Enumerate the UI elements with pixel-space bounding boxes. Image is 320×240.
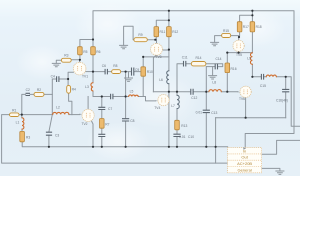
svg-text:R18: R18 bbox=[256, 25, 262, 29]
svg-text:R6: R6 bbox=[96, 50, 100, 54]
svg-text:R8: R8 bbox=[113, 64, 117, 68]
svg-text:L7: L7 bbox=[171, 104, 175, 108]
ground below R3 bbox=[52, 63, 61, 66]
svg-text:R3: R3 bbox=[64, 54, 68, 58]
wire L6 to bus bbox=[168, 84, 170, 147]
svg-text:TV5: TV5 bbox=[236, 53, 242, 57]
svg-text:TV1: TV1 bbox=[82, 74, 88, 78]
tube TV3 bbox=[151, 43, 163, 55]
wire L9 to C15 node bbox=[251, 64, 253, 77]
ground of R9 loop bbox=[119, 45, 128, 48]
capacitor C10 plates bbox=[173, 134, 180, 136]
resistor R3 bbox=[61, 58, 71, 62]
inductor L9 bbox=[250, 53, 252, 64]
tube TV6 bbox=[238, 86, 252, 97]
svg-text:C6: C6 bbox=[102, 64, 106, 68]
wire C6 R8 C9 chain bbox=[93, 71, 141, 73]
inductor L3 bbox=[91, 83, 93, 91]
svg-text:C9: C9 bbox=[135, 68, 139, 72]
resistor R5 bbox=[78, 47, 83, 55]
wire TV1 right link bbox=[86, 71, 93, 73]
wire top supply rail bbox=[93, 11, 294, 148]
svg-text:C11: C11 bbox=[182, 56, 188, 60]
resistor R14 bbox=[191, 62, 206, 66]
wire C4 branch vertical bbox=[52, 72, 73, 94]
wire out row step bbox=[262, 140, 300, 154]
svg-text:TV4: TV4 bbox=[154, 106, 160, 110]
capacitor on anode line plates bbox=[111, 94, 113, 100]
wire L1 R3a chain bbox=[22, 115, 228, 147]
wire R16 leads bbox=[226, 53, 228, 92]
svg-text:C4: C4 bbox=[51, 74, 55, 78]
resistor R10 bbox=[141, 67, 146, 76]
capacitor C3 plates bbox=[46, 132, 52, 135]
tube TV2 bbox=[80, 109, 95, 121]
wire TV6 cathode bbox=[245, 97, 247, 117]
capacitor C4 plates bbox=[57, 76, 59, 82]
capacitor C2 plates bbox=[26, 93, 31, 95]
svg-text:L1: L1 bbox=[16, 120, 20, 124]
resistor R8 bbox=[112, 70, 121, 74]
svg-text:C12: C12 bbox=[191, 96, 197, 100]
resistor R11 bbox=[154, 27, 159, 37]
tube TV4 bbox=[155, 95, 169, 106]
tube TV5 bbox=[233, 40, 244, 51]
svg-text:L5: L5 bbox=[130, 90, 134, 94]
svg-text:L2: L2 bbox=[56, 105, 60, 109]
capacitor C12 plates bbox=[191, 89, 193, 95]
svg-text:R11: R11 bbox=[160, 30, 166, 34]
svg-text:C15: C15 bbox=[260, 84, 266, 88]
svg-text:R3: R3 bbox=[26, 136, 30, 140]
capacitor below R7 plates bbox=[98, 134, 105, 136]
wire C8 drop chain bbox=[125, 72, 127, 147]
wire TV3 top lead bbox=[156, 40, 158, 44]
ground below C14 bbox=[208, 76, 217, 79]
resistor R18 bbox=[250, 22, 255, 32]
inductor L7 bbox=[177, 95, 179, 108]
svg-text:R4: R4 bbox=[72, 88, 76, 92]
resistor R15 bbox=[222, 33, 231, 37]
svg-text:R12: R12 bbox=[172, 30, 178, 34]
svg-text:0.01: 0.01 bbox=[179, 135, 186, 139]
wire TV3 right link bbox=[162, 49, 169, 51]
wire R5 branch bbox=[80, 40, 93, 60]
wire TV2 top lead bbox=[87, 97, 89, 110]
node In arrow bbox=[243, 147, 246, 149]
svg-text:R7: R7 bbox=[105, 123, 109, 127]
wire slant to C3 bbox=[49, 115, 52, 147]
svg-text:AC+20B: AC+20B bbox=[237, 161, 252, 166]
svg-text:L8: L8 bbox=[212, 81, 216, 85]
inductor L1 bbox=[22, 118, 24, 129]
wire C11 R14 branch bbox=[177, 64, 223, 92]
resistor R4 bbox=[67, 85, 71, 93]
capacitor C8 plates bbox=[122, 119, 129, 121]
wire C9 ground stem bbox=[128, 72, 130, 78]
resistor R2 bbox=[34, 92, 44, 96]
wire C7 R7 chain bbox=[101, 97, 103, 147]
ground below C9 chain bbox=[124, 78, 133, 81]
wire R10 top link to rail bbox=[143, 56, 169, 58]
svg-text:R13: R13 bbox=[181, 124, 187, 128]
resistor R3a below L1 bbox=[20, 131, 25, 141]
svg-text:L3: L3 bbox=[85, 85, 89, 89]
inductor of C15 output filter bbox=[266, 75, 276, 77]
wire C14 to rail bbox=[206, 66, 215, 68]
wire L7 R13 C10 chain bbox=[176, 92, 178, 147]
wire R3 to ground bbox=[56, 60, 61, 63]
wire R15 to TV5 bbox=[231, 36, 239, 41]
resistor R12 bbox=[167, 27, 172, 37]
resistor R9 bbox=[134, 38, 147, 42]
inductor L2 bbox=[53, 112, 69, 114]
capacitor C7 plates bbox=[98, 107, 105, 109]
svg-text:R16: R16 bbox=[231, 67, 237, 71]
svg-text:TV6: TV6 bbox=[239, 97, 245, 101]
wire general row to ground bbox=[262, 168, 280, 170]
svg-text:L6: L6 bbox=[159, 78, 163, 82]
junction dots bbox=[21, 114, 23, 116]
svg-text:C14: C14 bbox=[215, 57, 221, 61]
svg-text:R10: R10 bbox=[147, 70, 153, 74]
svg-text:C8: C8 bbox=[130, 119, 134, 123]
svg-text:R9: R9 bbox=[138, 33, 142, 37]
svg-text:L9: L9 bbox=[247, 57, 251, 61]
wire C16 branch bbox=[285, 77, 287, 118]
resistor R7 bbox=[100, 119, 105, 129]
svg-text:General: General bbox=[237, 167, 251, 172]
ground bottom right bbox=[275, 171, 284, 174]
connector table bbox=[228, 147, 262, 173]
wire R11 R12 branch bbox=[156, 11, 169, 71]
wire C14 ground stem bbox=[212, 67, 214, 76]
resistor R17 bbox=[237, 22, 242, 32]
wire node up to C2/R2 branch bbox=[22, 94, 53, 114]
wire TV1 top lead bbox=[71, 60, 80, 63]
wire R17 R18 branch bbox=[240, 11, 253, 36]
wire TV3 cathode drop bbox=[153, 55, 156, 92]
capacitor C15 plates bbox=[261, 74, 263, 80]
wire left input rail from R1 to bottom AC line bbox=[2, 115, 228, 164]
capacitor C14 plates bbox=[215, 64, 217, 70]
wire TV2 cathode to bus bbox=[91, 120, 93, 147]
wire AC drop x215.6 bbox=[215, 118, 217, 163]
wire plate rail x93 bbox=[93, 40, 155, 101]
svg-text:C16(40): C16(40) bbox=[276, 98, 288, 102]
resistor R13 bbox=[175, 120, 180, 130]
wire R4 leads bbox=[68, 79, 72, 115]
wire line y117.7 bbox=[216, 117, 286, 119]
svg-text:R15: R15 bbox=[223, 29, 229, 33]
svg-text:TV3: TV3 bbox=[155, 55, 161, 59]
svg-text:R5: R5 bbox=[83, 50, 87, 54]
capacitor C16 plates bbox=[282, 89, 289, 91]
svg-text:0.01: 0.01 bbox=[196, 111, 203, 115]
resistor R6 bbox=[91, 47, 96, 55]
wire grid line y91.7 bbox=[153, 91, 237, 93]
wire R15 to ground bbox=[215, 36, 222, 43]
wire rail x206 with C13 bbox=[205, 67, 207, 147]
svg-text:Out: Out bbox=[241, 155, 248, 160]
svg-text:C13: C13 bbox=[211, 111, 217, 115]
ground below R15 bbox=[210, 42, 219, 45]
tube TV1 bbox=[73, 62, 86, 75]
inductor L8 bbox=[209, 90, 221, 92]
inductor L5 bbox=[129, 95, 139, 97]
resistor R16 bbox=[225, 63, 230, 73]
svg-text:R2: R2 bbox=[37, 88, 41, 92]
inductor L6 bbox=[167, 71, 169, 84]
svg-text:TV2: TV2 bbox=[81, 122, 87, 126]
capacitor C9 plates bbox=[132, 68, 134, 76]
svg-text:R1: R1 bbox=[12, 108, 16, 112]
wire TV2 grid arrow bbox=[69, 114, 80, 116]
svg-text:C2: C2 bbox=[26, 88, 30, 92]
svg-text:C3: C3 bbox=[55, 134, 59, 138]
capacitor C13 plates bbox=[203, 110, 210, 112]
capacitor C6 plates bbox=[105, 69, 107, 75]
wire C15 coil line bbox=[252, 77, 300, 126]
wire R9 grounded grid loop bbox=[124, 26, 156, 45]
svg-text:C10: C10 bbox=[188, 135, 194, 139]
wire R1 to L2 node bbox=[19, 114, 53, 116]
svg-text:R17: R17 bbox=[243, 25, 249, 29]
capacitor C11 plates bbox=[184, 61, 186, 67]
wire TV5 cathode node bbox=[227, 32, 252, 53]
wire R10 leads bbox=[142, 57, 144, 97]
svg-text:R14: R14 bbox=[195, 56, 201, 60]
resistor R1 bbox=[10, 113, 20, 117]
svg-text:C7: C7 bbox=[108, 107, 112, 111]
